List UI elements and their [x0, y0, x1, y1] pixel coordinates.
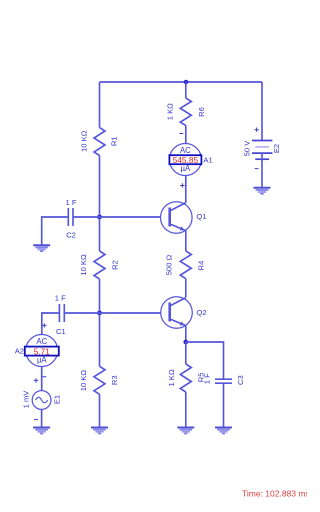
svg-text:µA: µA — [37, 355, 47, 364]
resistor R1 — [94, 128, 105, 156]
ground (C3) — [215, 428, 232, 434]
wire emitter node to R5 top — [185, 342, 187, 364]
wire R4 bottom to Q2 collector — [185, 279, 187, 298]
svg-text:1 F: 1 F — [55, 293, 66, 302]
svg-text:1 KΩ: 1 KΩ — [167, 369, 176, 386]
ground (E2) — [254, 188, 271, 194]
svg-text:C1: C1 — [56, 327, 66, 336]
svg-text:R1: R1 — [109, 136, 118, 146]
ammeter A2 — [25, 335, 59, 367]
svg-text:Q1: Q1 — [197, 212, 207, 221]
capacitor C1 — [59, 304, 64, 322]
node top rail / R6 junction — [184, 80, 189, 85]
AC source E1 — [32, 391, 51, 410]
node base Q1 junction — [97, 215, 102, 220]
polarity + (A1 bottom terminal) — [180, 183, 184, 187]
wire base node 1 to Q1 base — [100, 216, 161, 218]
svg-text:AC: AC — [36, 337, 47, 346]
svg-text:E1: E1 — [52, 395, 61, 404]
transistor Q2 — [161, 297, 193, 329]
wire C2 left plate to corner and down to ground — [42, 217, 69, 245]
wire Q1 emitter to R4 top — [185, 231, 187, 251]
svg-text:500 Ω: 500 Ω — [165, 254, 174, 275]
ground (R5) — [177, 428, 194, 434]
wire C2 right plate to base node 1 — [73, 216, 100, 218]
svg-text:10 KΩ: 10 KΩ — [80, 130, 89, 152]
svg-text:1 KΩ: 1 KΩ — [166, 103, 175, 120]
wire C1 left plate to corner and down to A2 — [42, 313, 60, 335]
svg-text:µA: µA — [181, 164, 191, 173]
ground (C2) — [33, 245, 50, 251]
resistor R6 — [180, 98, 191, 126]
svg-text:1 F: 1 F — [203, 373, 212, 384]
svg-text:1 F: 1 F — [66, 198, 77, 207]
wire top rail — [100, 81, 263, 83]
resistor R5 — [180, 364, 191, 392]
resistor R3 — [94, 366, 105, 394]
ground (E1) — [33, 428, 50, 434]
svg-text:R6: R6 — [197, 107, 206, 117]
wire A1 bottom to Q1 collector — [185, 176, 187, 203]
wire emitter node to C3 top — [186, 342, 224, 379]
svg-text:10 KΩ: 10 KΩ — [79, 370, 88, 392]
wire base node 2 to Q2 base — [100, 312, 161, 314]
polarity - (E2 bottom terminal) — [255, 168, 259, 170]
svg-text:1 mV: 1 mV — [22, 390, 31, 409]
wire R3 bottom to ground — [99, 394, 101, 427]
wire base node 1 to R2 top — [99, 217, 101, 251]
wire C3 bottom to ground — [223, 383, 225, 427]
battery E2 — [252, 141, 272, 160]
wire R1 bottom to base node 1 — [99, 156, 101, 218]
polarity + (E2 top terminal) — [254, 128, 258, 132]
wire R6 bottom to A1 top — [185, 126, 187, 144]
polarity - (E1 bottom terminal) — [34, 419, 38, 421]
capacitor C2 — [68, 208, 73, 226]
node emitter junction — [183, 340, 188, 345]
svg-text:Time: 102.883 ms: Time: 102.883 ms — [242, 489, 307, 499]
wire rail to R6 top — [185, 82, 187, 98]
ammeter A1 — [169, 144, 201, 176]
resistor R4 — [180, 251, 191, 279]
svg-text:A1: A1 — [203, 155, 212, 164]
svg-text:Q2: Q2 — [197, 308, 207, 317]
wire R2 bottom to base node 2 — [99, 279, 101, 313]
wire base node 2 to R3 top — [99, 313, 101, 366]
svg-text:E2: E2 — [272, 144, 281, 153]
wire rail to E2 top — [261, 82, 263, 141]
wire rail to R1 top — [99, 82, 101, 128]
polarity - (A1 top terminal) — [180, 133, 184, 135]
wire E2 bottom to ground — [261, 153, 263, 187]
transistor Q1 — [161, 202, 193, 234]
svg-text:C2: C2 — [66, 231, 76, 240]
ground (R3) — [91, 428, 108, 434]
svg-text:R4: R4 — [196, 261, 205, 271]
wire R5 bottom to ground — [185, 392, 187, 427]
svg-text:R3: R3 — [110, 375, 119, 385]
svg-text:R2: R2 — [111, 260, 120, 270]
svg-text:C3: C3 — [236, 375, 245, 385]
resistor R2 — [94, 251, 105, 279]
wire A2 bottom to E1 top — [41, 367, 43, 391]
capacitor C3 — [215, 379, 232, 383]
polarity + (E1 top terminal) — [34, 378, 38, 382]
node base Q2 junction — [97, 311, 102, 316]
wire Q2 emitter to emitter node — [185, 326, 187, 342]
polarity + (A2 top terminal) — [42, 323, 46, 327]
svg-text:10 KΩ: 10 KΩ — [79, 254, 88, 276]
svg-text:A2: A2 — [15, 346, 24, 355]
svg-text:50 V: 50 V — [243, 140, 252, 157]
polarity - (A2 bottom terminal) — [43, 376, 47, 378]
wire C1 right plate to base node 2 — [64, 312, 99, 314]
wire E1 bottom to ground — [41, 409, 43, 427]
